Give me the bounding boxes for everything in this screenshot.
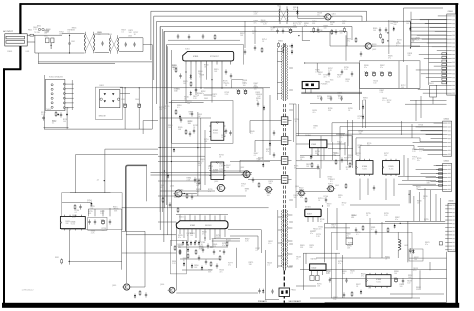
svg-text:C803: C803 [128, 36, 132, 38]
svg-text:47u: 47u [270, 30, 273, 32]
svg-text:CN605: CN605 [444, 161, 449, 163]
svg-text:8V REG: 8V REG [305, 207, 312, 209]
svg-text:Q606: Q606 [160, 284, 164, 286]
svg-text:100: 100 [177, 246, 180, 248]
svg-text:47u: 47u [413, 270, 416, 272]
svg-text:TL431: TL431 [70, 224, 75, 226]
svg-text:0.1: 0.1 [75, 212, 78, 214]
svg-text:47u: 47u [222, 245, 225, 247]
svg-text:0.1: 0.1 [87, 202, 90, 204]
svg-text:100: 100 [414, 259, 417, 261]
svg-text:100: 100 [267, 195, 270, 197]
svg-text:C805: C805 [121, 99, 125, 101]
svg-text:47u: 47u [304, 25, 307, 27]
svg-text:D801: D801 [100, 85, 104, 87]
svg-text:0.1: 0.1 [324, 198, 327, 200]
svg-text:0.1: 0.1 [250, 133, 253, 135]
svg-text:100: 100 [328, 179, 331, 181]
svg-text:L801: L801 [26, 51, 30, 53]
svg-text:0.1: 0.1 [265, 190, 268, 192]
svg-text:D805: D805 [204, 98, 208, 100]
svg-text:100: 100 [363, 99, 366, 101]
svg-text:47u: 47u [312, 112, 315, 114]
svg-text:Q602: Q602 [372, 49, 376, 51]
svg-text:CN606: CN606 [448, 201, 453, 203]
svg-text:Q605: Q605 [335, 185, 339, 187]
svg-text:100: 100 [399, 286, 402, 288]
svg-text:100: 100 [327, 98, 330, 100]
svg-text:47u: 47u [412, 158, 415, 160]
svg-text:100: 100 [242, 82, 245, 84]
svg-text:47u: 47u [318, 229, 321, 231]
svg-text:47u: 47u [382, 100, 385, 102]
svg-text:T802: T802 [277, 6, 281, 8]
svg-text:100: 100 [344, 160, 347, 162]
svg-text:0.1: 0.1 [52, 122, 55, 124]
svg-text:100: 100 [356, 155, 359, 157]
svg-text:0.1: 0.1 [208, 168, 211, 170]
svg-text:0.1: 0.1 [342, 205, 345, 207]
svg-text:47u: 47u [346, 236, 349, 238]
svg-text:Q802: Q802 [240, 167, 244, 169]
svg-text:47u: 47u [339, 137, 342, 139]
svg-text:Q804: Q804 [170, 186, 174, 188]
svg-text:CN601: CN601 [448, 11, 454, 13]
svg-text:47u: 47u [347, 40, 350, 42]
svg-text:100: 100 [189, 114, 192, 116]
svg-text:100: 100 [174, 90, 177, 92]
svg-text:100: 100 [323, 28, 326, 30]
svg-text:PH601: PH601 [291, 290, 296, 292]
svg-text:S801: S801 [44, 36, 48, 38]
svg-text:47u: 47u [202, 234, 205, 236]
svg-text:100: 100 [243, 85, 246, 87]
svg-text:100: 100 [406, 23, 409, 25]
svg-text:0.1: 0.1 [371, 229, 374, 231]
svg-text:STRS6707: STRS6707 [210, 56, 219, 58]
svg-text:100: 100 [196, 185, 199, 187]
svg-text:47u: 47u [293, 9, 296, 11]
svg-text:Q803: Q803 [214, 181, 218, 183]
svg-text:PRIMARY: PRIMARY [258, 300, 268, 303]
svg-text:47u: 47u [228, 265, 231, 267]
svg-text:IC601: IC601 [179, 217, 184, 219]
svg-text:0.1: 0.1 [351, 217, 354, 219]
svg-text:0.1: 0.1 [255, 250, 258, 252]
svg-text:C801: C801 [71, 41, 75, 43]
svg-text:100: 100 [226, 167, 229, 169]
svg-text:TL431: TL431 [389, 168, 394, 170]
svg-text:47u: 47u [425, 244, 428, 246]
svg-text:100: 100 [219, 171, 222, 173]
svg-text:0.1: 0.1 [68, 32, 71, 34]
svg-text:100: 100 [187, 103, 190, 105]
svg-text:100: 100 [300, 192, 303, 194]
svg-text:47u: 47u [268, 243, 271, 245]
svg-text:Q805: Q805 [112, 285, 116, 287]
svg-text:IC801: IC801 [193, 56, 199, 58]
svg-text:100: 100 [313, 231, 316, 233]
svg-text:TH801: TH801 [46, 109, 51, 111]
svg-text:47u: 47u [364, 67, 367, 69]
svg-text:100: 100 [373, 30, 376, 32]
svg-text:TL431: TL431 [376, 282, 381, 284]
svg-text:100: 100 [190, 235, 193, 237]
svg-text:47u: 47u [300, 197, 303, 199]
svg-text:T601: T601 [330, 80, 334, 82]
svg-text:CN801: CN801 [7, 51, 12, 53]
svg-text:BRIDGE: BRIDGE [99, 116, 107, 118]
svg-text:L601: L601 [404, 245, 408, 247]
svg-text:0.1: 0.1 [267, 265, 270, 267]
svg-text:T3.15A: T3.15A [34, 31, 40, 34]
svg-text:47u: 47u [380, 67, 383, 69]
svg-text:0.1: 0.1 [320, 221, 323, 223]
svg-text:0.1: 0.1 [423, 198, 426, 200]
svg-text:IC801: IC801 [185, 49, 190, 51]
svg-text:47u: 47u [266, 151, 269, 153]
svg-text:F801: F801 [28, 30, 32, 32]
svg-text:AC INPUT: AC INPUT [3, 30, 13, 33]
svg-text:0.1: 0.1 [65, 109, 68, 111]
svg-text:100: 100 [254, 89, 257, 91]
svg-text:0.1: 0.1 [165, 108, 168, 110]
svg-text:0.1: 0.1 [177, 107, 180, 109]
svg-text:L803: L803 [108, 34, 112, 36]
svg-text:47u: 47u [219, 272, 222, 274]
svg-text:0.1: 0.1 [254, 155, 257, 157]
svg-text:100: 100 [373, 83, 376, 85]
svg-text:0.1: 0.1 [356, 234, 359, 236]
svg-text:0.1: 0.1 [121, 31, 124, 33]
svg-text:100: 100 [407, 283, 410, 285]
svg-text:100: 100 [338, 95, 341, 97]
svg-text:100: 100 [394, 273, 397, 275]
svg-text:47u: 47u [395, 219, 398, 221]
svg-text:C806: C806 [135, 99, 139, 101]
svg-text:100: 100 [221, 137, 224, 139]
svg-text:47u: 47u [338, 263, 341, 265]
svg-text:0.1: 0.1 [419, 151, 422, 153]
svg-text:100: 100 [401, 87, 404, 89]
svg-text:SECONDARY: SECONDARY [289, 300, 302, 303]
svg-text:47u: 47u [310, 233, 313, 235]
svg-text:100: 100 [342, 273, 345, 275]
svg-text:0.1: 0.1 [350, 272, 353, 274]
svg-text:R831: R831 [55, 257, 59, 259]
svg-text:Q601: Q601 [332, 14, 336, 16]
svg-text:47u: 47u [241, 186, 244, 188]
svg-text:100: 100 [318, 74, 321, 76]
svg-text:100: 100 [63, 121, 66, 123]
svg-text:47u: 47u [323, 76, 326, 78]
svg-text:100: 100 [338, 197, 341, 199]
svg-text:CN604: CN604 [444, 119, 449, 121]
svg-text:TL431: TL431 [362, 168, 367, 170]
svg-text:47u: 47u [253, 22, 256, 24]
svg-text:SE090N: SE090N [205, 225, 212, 227]
svg-text:RL801 DEGAUSS: RL801 DEGAUSS [49, 76, 64, 79]
svg-text:IC603: IC603 [311, 144, 316, 146]
svg-text:100: 100 [368, 288, 371, 290]
svg-text:47u: 47u [361, 276, 364, 278]
svg-text:47u: 47u [417, 160, 420, 162]
svg-text:IC601: IC601 [190, 225, 195, 227]
svg-text:100: 100 [196, 191, 199, 193]
svg-text:0.1: 0.1 [358, 118, 361, 120]
svg-text:47u: 47u [208, 191, 211, 193]
svg-text:CN603: CN603 [429, 83, 434, 85]
svg-text:47u: 47u [388, 57, 391, 59]
svg-text:47u: 47u [328, 185, 331, 187]
svg-text:47u: 47u [178, 237, 181, 239]
svg-text:1-789-456-12: 1-789-456-12 [22, 290, 35, 292]
svg-text:S2000: S2000 [213, 133, 218, 135]
svg-text:100: 100 [168, 127, 171, 129]
svg-text:47u: 47u [72, 217, 75, 219]
svg-text:IC607: IC607 [307, 213, 312, 215]
svg-text:100: 100 [339, 33, 342, 35]
